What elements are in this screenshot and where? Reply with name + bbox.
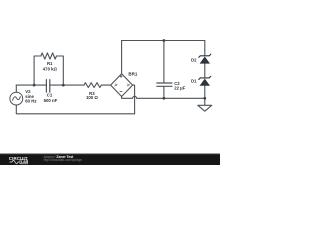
wire top rail: [122, 40, 205, 42]
capacitor C2: [157, 83, 172, 86]
capacitor C1: [46, 80, 49, 93]
wire D2-D1: [204, 64, 206, 78]
junction node C2 bottom: [163, 97, 166, 100]
zener diode D2 bar: [199, 54, 211, 57]
footer banner: [0, 154, 220, 166]
svg-text:D2: D2: [191, 57, 197, 62]
resistor R1: [41, 53, 57, 59]
svg-text:BR1: BR1: [128, 72, 137, 77]
wire source top: [15, 85, 17, 92]
svg-text:100 Ω: 100 Ω: [86, 95, 98, 100]
wire R1 loop left: [34, 56, 41, 85]
svg-text:D1: D1: [191, 79, 197, 84]
junction node C2 top: [163, 39, 166, 42]
resistor R3: [84, 83, 101, 88]
junction node left of C1: [33, 84, 36, 87]
svg-text:470 kΩ: 470 kΩ: [43, 66, 58, 71]
diode D1 triangle: [200, 79, 210, 86]
zener diode D1 bar: [199, 76, 211, 79]
diode D2 triangle: [200, 57, 210, 64]
junction node diode bottom: [203, 97, 206, 100]
wire C2 top: [163, 41, 165, 83]
logo LAB box: [20, 160, 27, 164]
junction node right of C1: [62, 84, 65, 87]
bridge plus sign: [120, 75, 123, 78]
wire bridge right vertex down (AC2): [133, 85, 135, 114]
bridge minus sign: [120, 91, 123, 93]
bridge inner diode glyph left: [115, 84, 118, 87]
ground symbol: [198, 98, 212, 111]
svg-text:60 Hz: 60 Hz: [25, 99, 36, 104]
wire main horizontal left: [16, 84, 46, 86]
wire R3 to bridge: [101, 84, 110, 86]
svg-text:LAB: LAB: [21, 160, 29, 164]
wire rail to D2: [204, 41, 206, 56]
wire C1 to R3: [50, 84, 84, 86]
voltage source V2: [10, 92, 23, 105]
svg-text:500 nF: 500 nF: [44, 98, 58, 103]
bridge inner diode glyph right: [127, 84, 130, 87]
bridge rectifier BR1: [111, 74, 133, 97]
svg-text:22 µF: 22 µF: [174, 86, 185, 91]
wire bottom return rail: [16, 105, 134, 114]
wire bridge bottom stub: [121, 97, 123, 99]
svg-text:http://circuitlab.com/cpkbgv: http://circuitlab.com/cpkbgv: [44, 158, 83, 162]
logo wave: [10, 160, 20, 163]
wire D1 to bottom junction: [204, 86, 206, 99]
wire R1 loop right: [56, 56, 63, 85]
wire C2 bottom: [163, 87, 165, 99]
wire bottom output rail with hop: [122, 96, 205, 98]
wire bridge top to rail: [121, 41, 123, 74]
